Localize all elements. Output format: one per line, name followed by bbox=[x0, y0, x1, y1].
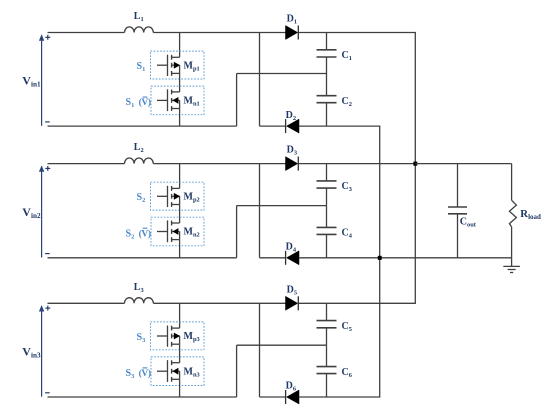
wire switch node to Mp3 drain bbox=[179, 303, 181, 328]
wire ground bus (lower diode returns) bbox=[379, 126, 381, 397]
label Rload bbox=[520, 208, 541, 221]
label S3 complement bbox=[126, 368, 151, 380]
junction output bus / phase 2 rail bbox=[413, 162, 417, 166]
wire C2 to D2 row bbox=[326, 103, 328, 126]
capacitor C4 bbox=[317, 227, 337, 234]
svg-text:Vin3: Vin3 bbox=[22, 345, 41, 360]
switch box S1 bbox=[151, 51, 205, 79]
svg-text:C1: C1 bbox=[342, 50, 352, 62]
wire riser phase 2 bbox=[236, 206, 238, 258]
wire D5 cathode node to C5 bbox=[326, 303, 328, 320]
wire D1 cathode node to C1 bbox=[326, 33, 328, 50]
wire riser phase 3 bbox=[236, 345, 238, 397]
inductor L1 bbox=[125, 27, 154, 33]
wire Rload top lead bbox=[511, 164, 513, 201]
wire L3 to D5 anode (switch node) bbox=[153, 302, 285, 304]
svg-text:C2: C2 bbox=[342, 96, 352, 108]
wire D3 cathode to output bus bbox=[298, 163, 415, 165]
label plus Vin3 bbox=[45, 306, 50, 311]
svg-text:L3: L3 bbox=[134, 282, 144, 294]
label minus Vin3 bbox=[45, 392, 50, 394]
wire C5 to mid node bbox=[326, 328, 328, 345]
wire switch node to D2 cathode bbox=[260, 125, 286, 127]
svg-text:Mn1: Mn1 bbox=[184, 96, 200, 108]
label S1 complement bbox=[126, 97, 151, 109]
label S2 complement bbox=[126, 228, 151, 240]
label C3 bbox=[342, 181, 352, 193]
svg-text:D1: D1 bbox=[287, 14, 297, 26]
source arrow Vin2 bbox=[39, 165, 44, 257]
svg-text:D4: D4 bbox=[286, 242, 297, 254]
label Mp3 bbox=[184, 331, 200, 343]
svg-text:Mn3: Mn3 bbox=[184, 366, 200, 378]
capacitor C2 bbox=[317, 96, 337, 103]
switch box S2 bbox=[151, 182, 205, 210]
label Mn3 bbox=[184, 366, 200, 378]
wire Mp3 source to Mn3 drain bbox=[179, 344, 181, 363]
wire Cout bottom lead bbox=[457, 214, 459, 258]
wire switch node drop phase 2 bbox=[259, 164, 261, 258]
wire Vin1 plus to L1 bbox=[48, 32, 125, 34]
svg-text:D3: D3 bbox=[287, 145, 297, 157]
diode D2 bbox=[286, 119, 299, 133]
wire C4 to D4 row bbox=[326, 234, 328, 257]
label C6 bbox=[342, 367, 353, 379]
wire mid node phase 2 bbox=[237, 205, 327, 207]
label Mp2 bbox=[184, 191, 200, 203]
label D4 bbox=[286, 242, 297, 254]
wire output bus (upper diode outputs) bbox=[414, 33, 416, 304]
svg-text:D2: D2 bbox=[286, 110, 296, 122]
svg-text:C4: C4 bbox=[342, 228, 353, 240]
transistor Mp3 bbox=[157, 326, 180, 347]
ground bbox=[503, 258, 520, 273]
svg-text:Mp3: Mp3 bbox=[184, 331, 200, 343]
svg-text:Mp1: Mp1 bbox=[184, 60, 200, 72]
wire mid node to C6 bbox=[326, 345, 328, 366]
svg-text:Mp2: Mp2 bbox=[184, 191, 200, 203]
wire Rload bottom lead bbox=[511, 227, 513, 258]
svg-text:S3: S3 bbox=[137, 332, 146, 344]
source arrow Vin1 bbox=[39, 34, 44, 126]
label C2 bbox=[342, 96, 352, 108]
label Mn1 bbox=[184, 96, 200, 108]
capacitor Cout bbox=[448, 207, 467, 214]
svg-text:C3: C3 bbox=[342, 181, 352, 193]
inductor L2 bbox=[125, 158, 154, 164]
transistor Mn3 bbox=[157, 360, 180, 382]
label D1 bbox=[287, 14, 297, 26]
label C4 bbox=[342, 228, 353, 240]
wire D3 cathode node to C3 bbox=[326, 164, 328, 181]
label Mn2 bbox=[184, 227, 200, 239]
transistor Mn1 bbox=[157, 89, 180, 111]
svg-text:(V): (V) bbox=[139, 368, 151, 379]
wire D2 anode to ground bus bbox=[299, 125, 380, 127]
wire Mp2 source to Mn2 drain bbox=[179, 205, 181, 224]
wire bottom rail phase 3 bbox=[48, 396, 237, 398]
switch box S2 complement bbox=[151, 217, 204, 246]
capacitor C1 bbox=[317, 50, 337, 57]
label Vin2 bbox=[22, 205, 41, 220]
diode D3 bbox=[286, 157, 299, 171]
label C1 bbox=[342, 50, 352, 62]
label Cout bbox=[460, 216, 477, 228]
transistor Mp1 bbox=[157, 55, 180, 76]
label plus Vin1 bbox=[45, 35, 50, 40]
wire switch node to Mp2 drain bbox=[179, 164, 181, 189]
label D2 bbox=[286, 110, 296, 122]
label C5 bbox=[342, 321, 352, 333]
svg-text:Vin1: Vin1 bbox=[22, 74, 41, 89]
switch box S3 bbox=[151, 322, 205, 350]
wire Vin2 plus to L2 bbox=[48, 163, 125, 165]
label Mp1 bbox=[184, 60, 200, 72]
wire Mn3 source to bottom rail bbox=[179, 379, 181, 397]
svg-text:Cout: Cout bbox=[460, 216, 477, 228]
transistor Mp2 bbox=[157, 186, 180, 207]
resistor Rload bbox=[509, 200, 516, 227]
wire mid node phase 3 bbox=[237, 344, 327, 346]
wire D1 cathode to output bus bbox=[298, 32, 416, 34]
wire C6 to D6 row bbox=[326, 374, 328, 397]
svg-text:S1: S1 bbox=[137, 61, 146, 73]
svg-text:(V): (V) bbox=[139, 97, 151, 108]
inductor L3 bbox=[125, 298, 154, 304]
wire switch node to D4 cathode bbox=[260, 257, 286, 259]
svg-text:S3: S3 bbox=[126, 368, 135, 380]
wire D6 anode to ground bus bbox=[299, 396, 380, 398]
wire C1 to mid node bbox=[326, 57, 328, 74]
svg-text:Mn2: Mn2 bbox=[184, 227, 200, 239]
source arrow Vin3 bbox=[39, 305, 44, 397]
wire switch node drop phase 1 bbox=[259, 33, 261, 127]
label D6 bbox=[286, 381, 297, 393]
switch box S1 complement bbox=[151, 86, 204, 115]
svg-text:L1: L1 bbox=[134, 11, 144, 23]
label Vin1 bbox=[22, 74, 41, 89]
transistor Mn2 bbox=[157, 220, 180, 242]
junction ground bus / output return bbox=[378, 256, 382, 260]
label S2 bbox=[137, 192, 146, 204]
capacitor C5 bbox=[317, 321, 337, 328]
label S3 bbox=[137, 332, 146, 344]
wire output top rail bbox=[415, 163, 511, 165]
label L1 bbox=[134, 11, 144, 23]
wire Vin3 plus to L3 bbox=[48, 302, 125, 304]
wire D4 anode to ground bus and output return bbox=[299, 257, 512, 259]
wire C3 to mid node bbox=[326, 188, 328, 206]
label D3 bbox=[287, 145, 297, 157]
diode D6 bbox=[286, 390, 299, 404]
svg-text:S2: S2 bbox=[137, 192, 146, 204]
wire switch node to D6 cathode bbox=[260, 396, 286, 398]
diode D1 bbox=[286, 26, 299, 40]
wire Mn2 source to bottom rail bbox=[179, 240, 181, 258]
label D5 bbox=[287, 284, 297, 296]
wire switch node to Mp1 drain bbox=[179, 33, 181, 58]
svg-text:D5: D5 bbox=[287, 284, 297, 296]
wire mid node to C2 bbox=[326, 74, 328, 96]
wire riser phase 1 bbox=[236, 74, 238, 127]
label minus Vin2 bbox=[45, 253, 50, 255]
wire Mp1 source to Mn1 drain bbox=[179, 73, 181, 92]
svg-text:S1: S1 bbox=[126, 97, 135, 109]
wire L2 to D3 anode (switch node) bbox=[153, 163, 285, 165]
svg-text:C6: C6 bbox=[342, 367, 353, 379]
wire Cout top lead bbox=[457, 164, 459, 207]
svg-text:D6: D6 bbox=[286, 381, 297, 393]
capacitor C3 bbox=[317, 181, 337, 188]
wire mid node phase 1 bbox=[237, 73, 327, 75]
label minus Vin1 bbox=[45, 121, 50, 123]
diode D4 bbox=[286, 251, 299, 265]
wire bottom rail phase 2 bbox=[48, 257, 237, 259]
diode D5 bbox=[286, 296, 299, 310]
wire bottom rail phase 1 bbox=[48, 125, 237, 127]
svg-text:L2: L2 bbox=[134, 142, 144, 154]
switch box S3 complement bbox=[151, 357, 204, 386]
svg-text:C5: C5 bbox=[342, 321, 352, 333]
label plus Vin2 bbox=[45, 166, 50, 171]
svg-text:Vin2: Vin2 bbox=[22, 205, 41, 220]
label L3 bbox=[134, 282, 144, 294]
capacitor C6 bbox=[317, 367, 337, 374]
label L2 bbox=[134, 142, 144, 154]
label Vin3 bbox=[22, 345, 41, 360]
svg-text:S2: S2 bbox=[126, 228, 135, 240]
svg-text:Rload: Rload bbox=[520, 208, 541, 221]
wire L1 to D1 anode (switch node) bbox=[153, 32, 285, 34]
wire mid node to C4 bbox=[326, 206, 328, 228]
wire Mn1 source to bottom rail bbox=[179, 109, 181, 127]
wire D5 cathode to output bus bbox=[298, 302, 416, 304]
label S1 bbox=[137, 61, 146, 73]
wire switch node drop phase 3 bbox=[259, 303, 261, 397]
svg-text:(V): (V) bbox=[139, 228, 151, 239]
